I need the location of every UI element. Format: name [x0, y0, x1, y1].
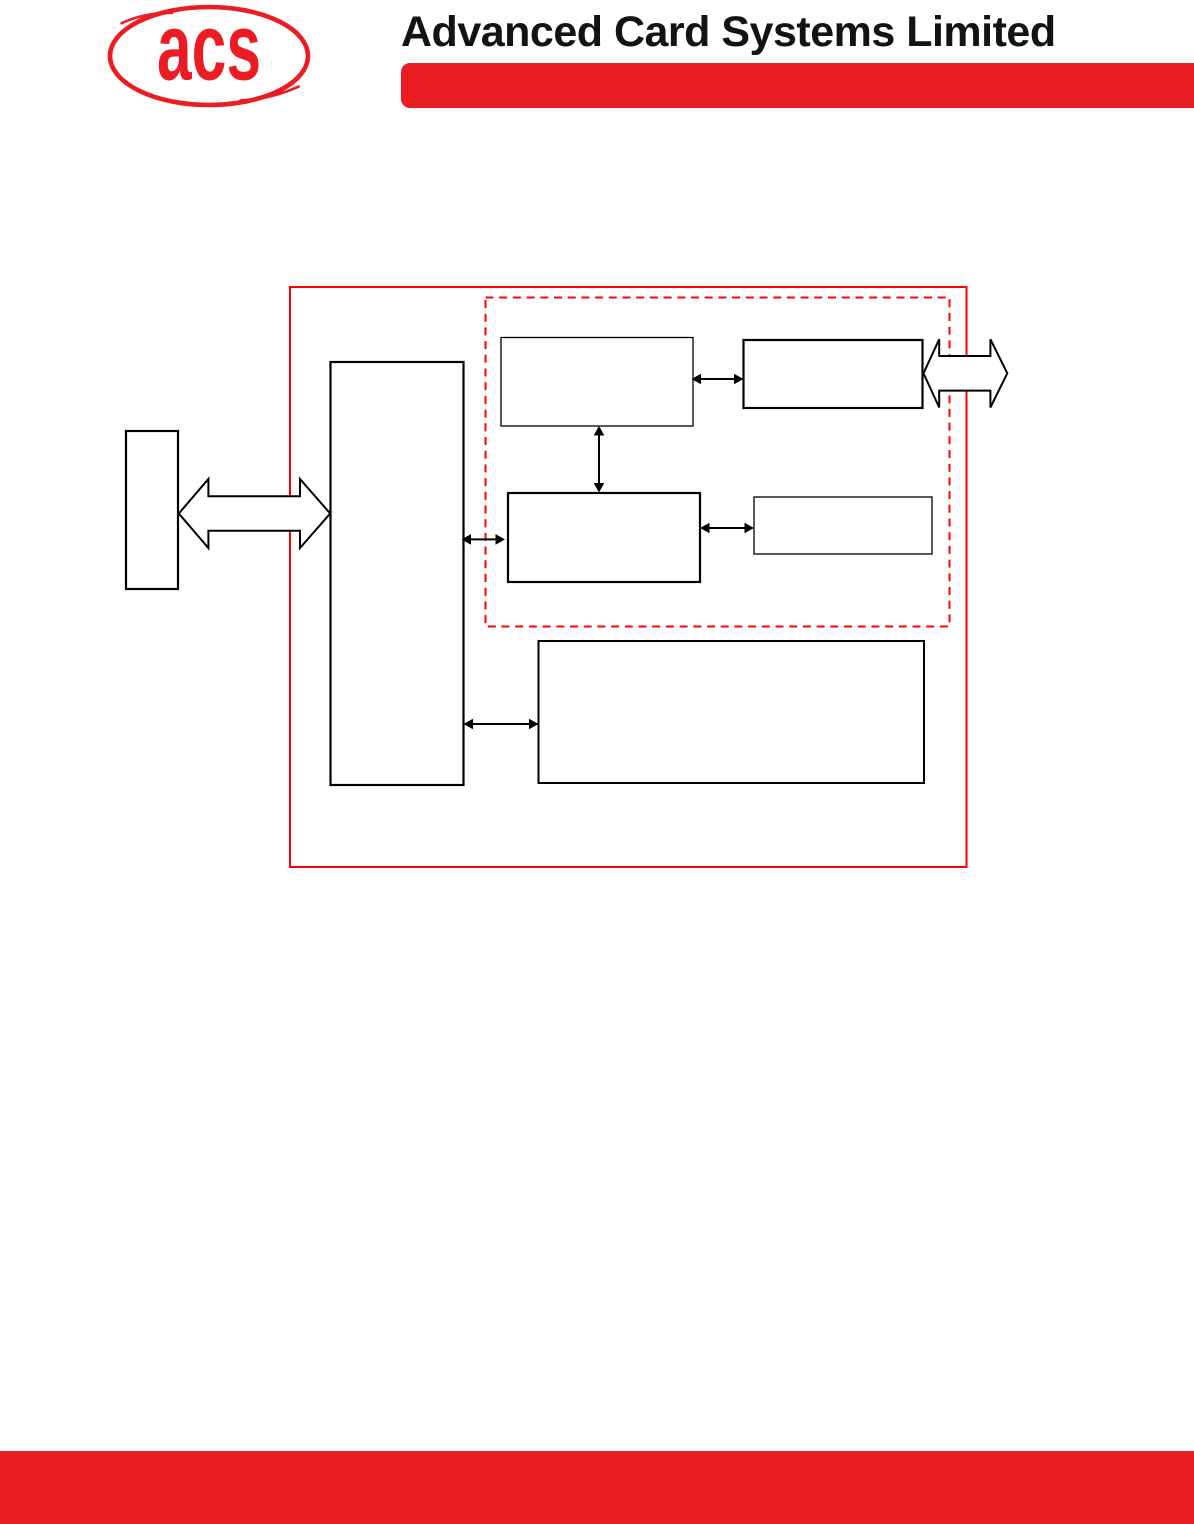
hollow double arrow left — [179, 479, 330, 548]
footer red bar — [0, 1451, 1194, 1524]
header red bar — [401, 63, 1194, 108]
logo swash top-left — [122, 13, 172, 23]
logo ellipse — [110, 7, 308, 105]
hollow double arrow right — [924, 339, 1008, 407]
box B2 tall rectangle — [331, 362, 464, 785]
box B3 top-left — [501, 338, 693, 427]
red dashed module boundary — [486, 298, 950, 627]
double arrow B5-B6 — [700, 523, 754, 534]
logo swash bottom-right — [241, 87, 299, 101]
box B7 big bottom — [539, 641, 925, 783]
double arrow B2-B5 — [462, 534, 506, 545]
box B6 right thin — [754, 497, 932, 554]
box B1 left small rectangle — [126, 431, 178, 589]
double arrow B3-B5 — [594, 426, 605, 493]
ACS logo — [0, 0, 340, 130]
double arrow B2-B7 — [464, 719, 539, 730]
title text — [401, 11, 1056, 54]
outer red boundary box — [290, 287, 967, 867]
box B4 top-right — [744, 340, 923, 408]
double arrow B3-B4 — [692, 374, 744, 385]
box B5 middle — [508, 493, 700, 582]
